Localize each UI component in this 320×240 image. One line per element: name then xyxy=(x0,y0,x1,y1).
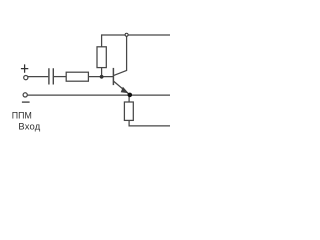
transistor Q1 collector xyxy=(114,36,127,76)
wire base xyxy=(88,76,113,78)
emitter arrowhead xyxy=(121,87,129,93)
wire bottom input to node xyxy=(27,94,170,96)
node collector rail junction xyxy=(125,33,128,36)
wire R3 bottom out xyxy=(129,120,170,126)
minus sign xyxy=(22,101,30,103)
capacitor C1 xyxy=(49,68,53,84)
wire node to R3 xyxy=(128,95,130,102)
wire drop to R1 xyxy=(101,34,103,46)
wire terminal to C1 xyxy=(28,76,48,78)
terminal plus input xyxy=(24,76,28,80)
resistor R1 xyxy=(97,47,106,68)
plus sign xyxy=(21,64,28,72)
wire C1 to R2 xyxy=(53,76,66,78)
node base junction dot xyxy=(100,75,104,79)
resistor R3 xyxy=(124,102,133,120)
wire R1 bottom to base node xyxy=(101,68,103,77)
transistor Q1 base bar xyxy=(112,68,114,85)
wire top supply rail xyxy=(102,34,170,36)
terminal minus input xyxy=(23,93,27,97)
resistor R2 xyxy=(66,72,88,81)
transistor Q1 emitter xyxy=(114,81,130,94)
node emitter junction dot xyxy=(128,93,133,98)
svg-text:ППМ: ППМ xyxy=(12,111,32,121)
svg-text:Вход: Вход xyxy=(18,121,40,132)
